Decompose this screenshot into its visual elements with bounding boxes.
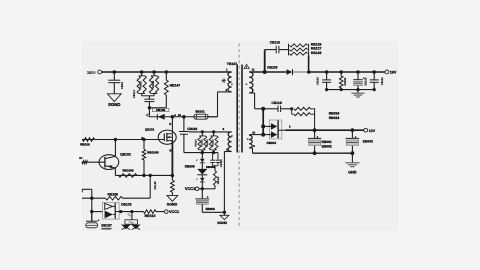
svg-text:RB118: RB118 <box>152 80 155 88</box>
svg-text:RB128: RB128 <box>311 51 322 55</box>
svg-text:CB119: CB119 <box>270 41 280 45</box>
svg-text:S: S <box>169 148 171 152</box>
svg-text:RB147: RB147 <box>170 83 181 87</box>
svg-text:CB121: CB121 <box>381 77 384 85</box>
svg-text:19V: 19V <box>390 71 397 75</box>
svg-text:DB005: DB005 <box>185 164 195 168</box>
svg-text:11: 11 <box>252 68 255 72</box>
svg-text:RB024: RB024 <box>329 112 340 116</box>
svg-text:RB116: RB116 <box>217 176 220 184</box>
svg-text:12V: 12V <box>369 129 376 133</box>
svg-text:380V: 380V <box>87 70 96 75</box>
svg-text:RB110: RB110 <box>145 214 156 218</box>
svg-text:RB113: RB113 <box>212 139 215 147</box>
svg-text:EB107: EB107 <box>101 224 111 228</box>
svg-text:CB114: CB114 <box>132 89 136 98</box>
svg-text:SGND: SGND <box>167 203 178 207</box>
svg-text:GND: GND <box>348 171 357 175</box>
svg-text:+: + <box>317 135 319 139</box>
svg-text:QB102: QB102 <box>120 152 131 156</box>
svg-text:DB106: DB106 <box>156 108 165 112</box>
svg-text:CB115: CB115 <box>220 159 223 167</box>
svg-text:BB101: BB101 <box>195 110 205 114</box>
svg-text:RB114: RB114 <box>195 139 198 147</box>
svg-text:!: ! <box>246 66 247 69</box>
svg-text:RB117: RB117 <box>140 80 143 88</box>
svg-text:DB103: DB103 <box>267 65 277 69</box>
svg-text:RB127: RB127 <box>311 47 322 51</box>
svg-text:100R/25V: 100R/25V <box>101 227 112 230</box>
svg-text:RB023: RB023 <box>329 116 340 120</box>
svg-text:QB101: QB101 <box>145 128 155 132</box>
svg-text:EB002: EB002 <box>322 145 332 149</box>
svg-text:CB118: CB118 <box>271 101 281 105</box>
svg-text:16: 16 <box>178 114 181 117</box>
svg-text:CB04: CB04 <box>120 82 124 89</box>
svg-text:EB001: EB001 <box>322 140 332 144</box>
svg-text:+: + <box>355 135 357 139</box>
svg-text:RB1008: RB1008 <box>123 168 134 172</box>
svg-text:CB129: CB129 <box>316 77 319 85</box>
svg-text:10: 10 <box>252 131 255 134</box>
svg-text:SGND: SGND <box>217 221 227 225</box>
svg-text:VCC1: VCC1 <box>185 186 196 191</box>
svg-text:RB1009: RB1009 <box>147 151 159 155</box>
svg-text:RB126: RB126 <box>311 42 322 46</box>
svg-text:EB003: EB003 <box>363 140 373 144</box>
svg-text:VCC1: VCC1 <box>169 210 179 214</box>
svg-text:EB006: EB006 <box>206 207 216 211</box>
svg-text:RB115: RB115 <box>200 139 203 147</box>
svg-text:RB106: RB106 <box>80 142 90 146</box>
svg-text:RB112: RB112 <box>206 139 209 147</box>
svg-text:DB004: DB004 <box>206 165 215 169</box>
svg-text:DB001: DB001 <box>267 141 277 145</box>
svg-text:RB148: RB148 <box>154 181 157 189</box>
svg-text:TB101: TB101 <box>227 62 238 66</box>
svg-text:RB030: RB030 <box>344 77 347 85</box>
svg-text:07: 07 <box>79 156 83 160</box>
svg-text:DB102: DB102 <box>121 203 131 207</box>
svg-text:CB116: CB116 <box>187 127 197 131</box>
svg-text:RB105: RB105 <box>108 193 119 197</box>
svg-text:SGND: SGND <box>108 102 120 107</box>
svg-text:EB120: EB120 <box>364 77 367 85</box>
